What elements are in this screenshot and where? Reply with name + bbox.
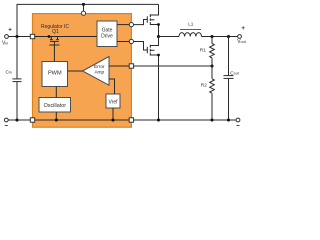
svg-text:Oscillator: Oscillator — [44, 103, 67, 109]
svg-text:L1: L1 — [188, 22, 194, 27]
pin IC right upper (circle) — [129, 23, 133, 27]
svg-text:Amp: Amp — [94, 70, 104, 76]
capacitor Cin — [13, 37, 22, 121]
block Oscillator — [39, 98, 71, 113]
regulator IC U1 body — [33, 14, 132, 128]
inductor L1 — [179, 30, 202, 37]
wire lower gate — [134, 42, 148, 51]
wire Vin+ to IC left pin — [9, 36, 31, 38]
junction output / Cout — [227, 35, 230, 38]
wire switch node to L1 — [159, 36, 180, 38]
svg-text:Drive: Drive — [101, 33, 113, 39]
wire Oscillator to ground rail — [55, 112, 57, 120]
wire Q1 gate to PWM — [53, 45, 55, 62]
block PWM — [42, 62, 68, 87]
label - (Vout-) — [237, 125, 240, 127]
wire Vref to ground rail — [112, 108, 114, 120]
wire error amp to PWM — [68, 70, 83, 72]
capacitor Cout — [224, 37, 234, 121]
block Gate Drive — [97, 21, 117, 47]
resistor R1 — [210, 37, 215, 67]
terminal Vout- — [236, 118, 240, 122]
transistor Q1 — [49, 37, 59, 46]
terminal Vin- — [4, 118, 8, 122]
pin IC bottom-left (square) — [30, 118, 34, 122]
pin IC bottom-right (square) — [129, 118, 133, 122]
junction internal Vin / Q1 — [48, 35, 51, 38]
terminal Vout+ — [238, 35, 242, 39]
junction feedback node — [210, 64, 213, 67]
pin IC top (circle) — [81, 11, 85, 15]
svg-text:+: + — [241, 25, 245, 32]
svg-text:Vref: Vref — [109, 100, 119, 106]
wire top rail (Vin rail) — [17, 4, 159, 36]
transistor Q2 high-side MOSFET — [147, 4, 158, 36]
svg-text:+: + — [8, 26, 12, 33]
wire error amp FB input to right pin — [109, 65, 129, 67]
resistor R2 — [210, 66, 215, 120]
junction rail / Q3 source — [157, 118, 160, 121]
junction top rail to IC top pin — [82, 3, 85, 6]
wire feedback to FB pin — [134, 65, 212, 67]
junction rail / Oscillator — [55, 118, 58, 121]
transistor Q3 low-side MOSFET — [147, 37, 158, 121]
junction output / R1 — [210, 35, 213, 38]
wire Vref to error amp input — [109, 79, 115, 94]
junction Q2 source/body — [157, 23, 160, 26]
svg-text:R2: R2 — [201, 82, 207, 88]
wire top pin stub — [83, 4, 85, 11]
wire L1 to output node — [202, 36, 238, 38]
junction rail / Cin — [15, 118, 18, 121]
pin IC right lower (circle) — [129, 39, 133, 43]
wire Gate Drive upper output — [117, 24, 129, 26]
block Vref — [106, 94, 120, 108]
svg-text:R1: R1 — [200, 47, 206, 53]
wire Gate Drive lower output — [117, 41, 129, 43]
svg-text:Q1: Q1 — [52, 29, 59, 35]
pin IC left (square) — [30, 34, 34, 38]
wire PWM to Oscillator — [55, 87, 57, 98]
svg-text:Error: Error — [94, 64, 105, 70]
junction rail / Cout — [227, 118, 230, 121]
svg-text:PWM: PWM — [48, 71, 62, 77]
junction rail / R2 — [210, 118, 213, 121]
junction Q3 source/body — [157, 54, 160, 57]
wire ground rail — [9, 119, 237, 121]
terminal Vin+ — [5, 35, 9, 39]
wire internal Vin to Gate Drive — [35, 36, 97, 38]
label - (Vin-) — [5, 125, 8, 127]
op-amp error amplifier — [83, 57, 110, 86]
wire upper gate — [134, 20, 148, 25]
junction rail / Vref — [111, 118, 114, 121]
junction Vin wire / Cin riser — [15, 35, 18, 38]
node switch (junction) — [157, 35, 160, 38]
pin IC right FB (square) — [129, 64, 133, 68]
